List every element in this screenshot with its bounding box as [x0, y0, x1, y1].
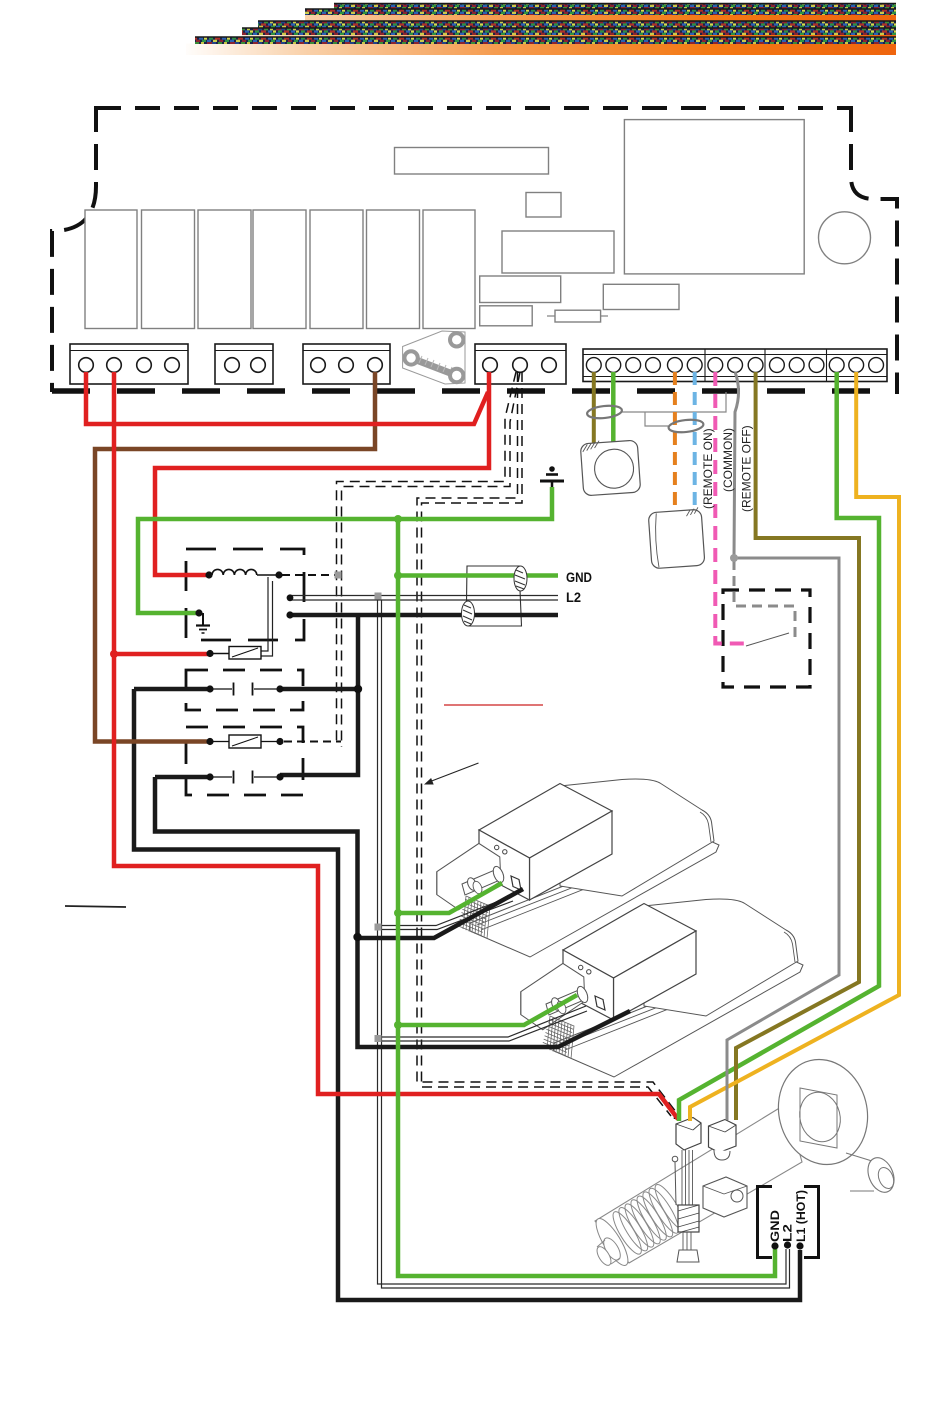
svg-text:(REMOTE OFF): (REMOTE OFF)	[740, 425, 754, 512]
svg-text:GND: GND	[566, 569, 592, 585]
svg-text:L1 (HOT): L1 (HOT)	[794, 1190, 808, 1242]
svg-text:(COMMON): (COMMON)	[721, 428, 735, 492]
svg-text:L2: L2	[566, 589, 581, 605]
svg-text:L2: L2	[781, 1224, 795, 1242]
svg-text:(REMOTE ON): (REMOTE ON)	[701, 428, 715, 509]
